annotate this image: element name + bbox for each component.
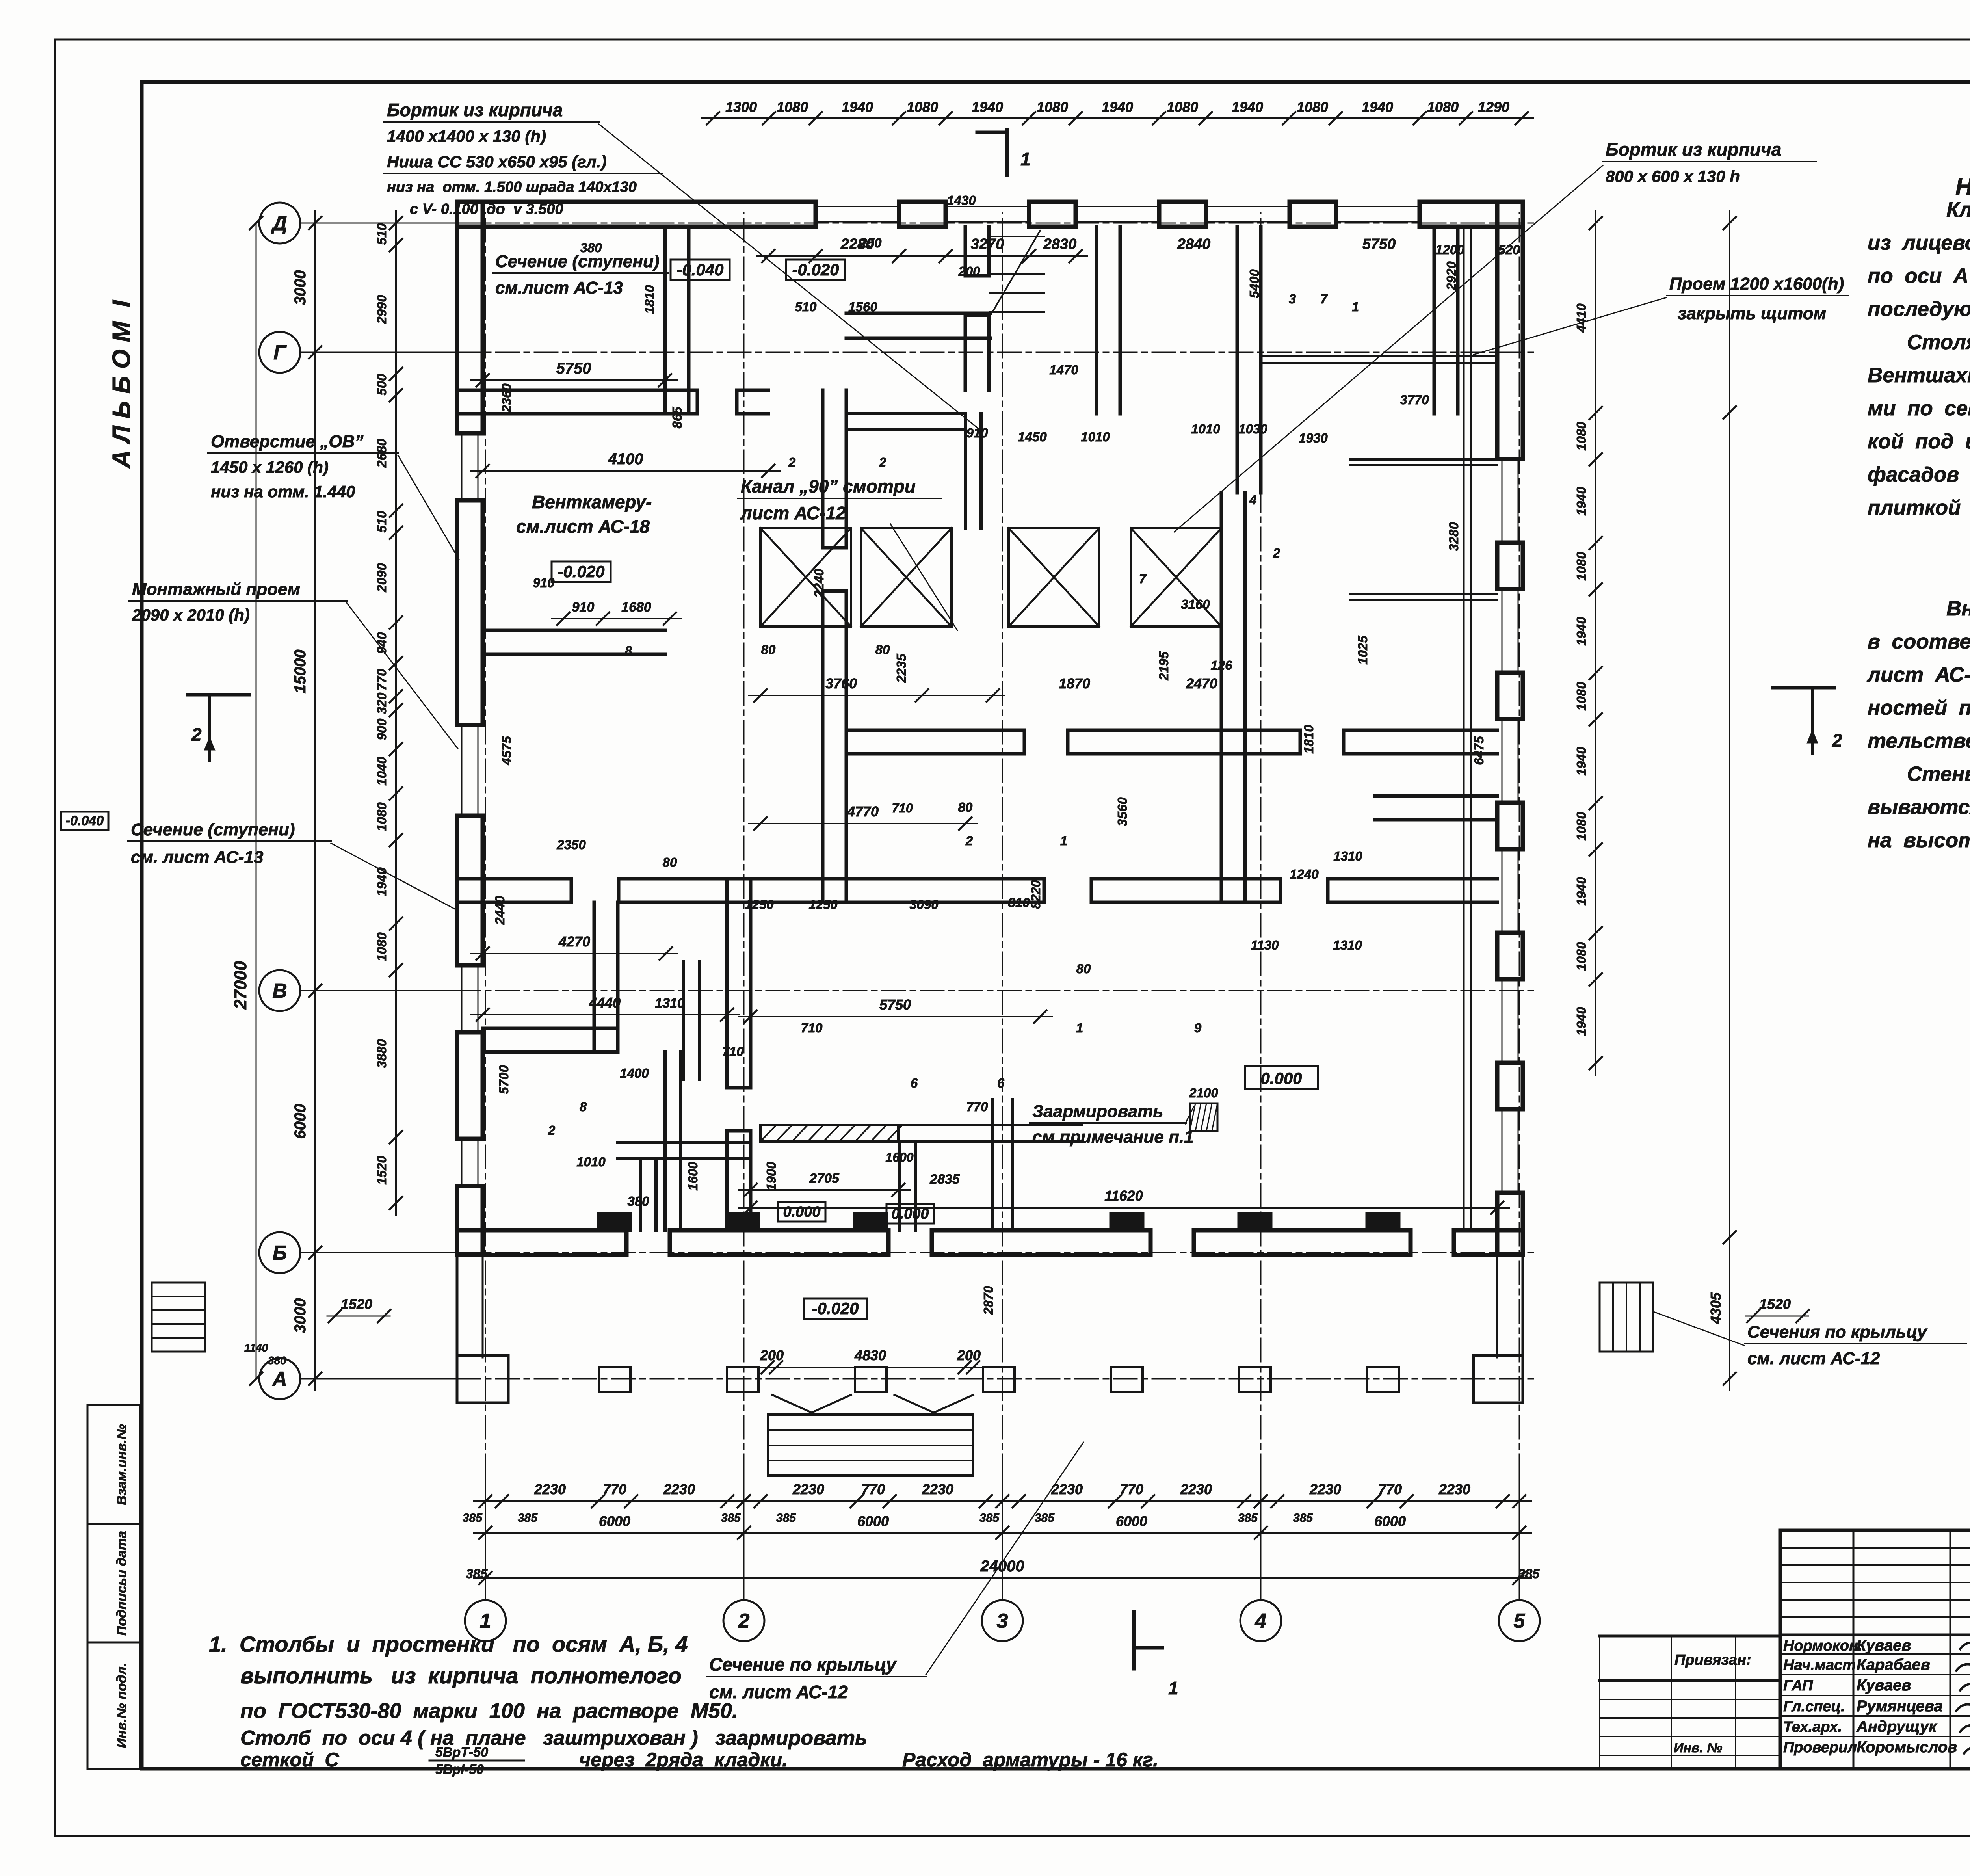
svg-text:Ниша СС 530 х650 х95 (гл.): Ниша СС 530 х650 х95 (гл.) [387, 152, 606, 171]
svg-text:-0.020: -0.020 [558, 562, 604, 581]
svg-text:3560: 3560 [1115, 797, 1130, 826]
svg-text:2: 2 [879, 455, 886, 470]
svg-text:-0.040: -0.040 [66, 813, 104, 828]
svg-text:В: В [272, 980, 287, 1002]
svg-text:4410: 4410 [1574, 303, 1589, 333]
svg-text:2240: 2240 [812, 569, 826, 598]
svg-text:1025: 1025 [1355, 636, 1370, 665]
svg-text:810: 810 [1008, 895, 1030, 910]
svg-text:2230: 2230 [922, 1481, 953, 1497]
svg-text:1080: 1080 [374, 932, 389, 961]
svg-text:Взам.инв.№: Взам.инв.№ [114, 1424, 129, 1505]
svg-text:Сечение (ступени): Сечение (ступени) [131, 820, 295, 839]
svg-text:2840: 2840 [1177, 236, 1211, 253]
svg-text:Стены санузлов, моечной: Стены санузлов, моечной и фасовочной, об… [1907, 762, 1970, 786]
svg-text:2: 2 [1273, 546, 1280, 560]
svg-text:510: 510 [795, 299, 817, 314]
svg-text:Проверил: Проверил [1783, 1739, 1857, 1756]
svg-text:лист АС-12: лист АС-12 [740, 503, 846, 523]
svg-text:3: 3 [1289, 292, 1296, 306]
svg-text:Сечение по крыльцу: Сечение по крыльцу [709, 1654, 897, 1675]
svg-text:-0.020: -0.020 [812, 1299, 859, 1318]
svg-text:2230: 2230 [663, 1481, 695, 1497]
svg-text:385: 385 [1293, 1512, 1313, 1525]
svg-text:2100: 2100 [1189, 1086, 1218, 1100]
svg-text:Привязан:: Привязан: [1674, 1652, 1751, 1668]
svg-text:385: 385 [721, 1512, 741, 1525]
svg-text:-0.020: -0.020 [792, 260, 839, 279]
svg-text:5400: 5400 [1247, 269, 1262, 298]
svg-text:Монтажный проем: Монтажный проем [132, 580, 300, 599]
svg-text:Кладка наружных верст в н: Кладка наружных верст в наружных стенах … [1946, 198, 1970, 221]
svg-text:200: 200 [958, 264, 980, 279]
svg-text:3280: 3280 [1446, 522, 1461, 551]
svg-text:Сечение (ступени): Сечение (ступени) [495, 252, 660, 271]
svg-text:385: 385 [1035, 1512, 1055, 1525]
svg-text:510: 510 [374, 511, 389, 533]
svg-text:710: 710 [722, 1044, 744, 1059]
svg-text:6475: 6475 [1472, 736, 1486, 765]
svg-text:940: 940 [374, 632, 389, 654]
svg-text:1310: 1310 [1333, 938, 1362, 952]
svg-text:27000: 27000 [231, 961, 250, 1010]
svg-text:Заармировать: Заармировать [1032, 1102, 1163, 1121]
svg-text:80: 80 [875, 642, 890, 657]
svg-text:1310: 1310 [655, 996, 685, 1011]
svg-text:8: 8 [580, 1099, 587, 1114]
svg-text:0.000: 0.000 [891, 1206, 929, 1222]
svg-text:380: 380 [627, 1194, 649, 1209]
svg-text:6000: 6000 [857, 1513, 889, 1529]
svg-text:385: 385 [466, 1566, 488, 1581]
svg-text:1. Столбы и простенки по: 1. Столбы и простенки по осям А, Б, 4 [209, 1632, 688, 1657]
svg-text:1940: 1940 [972, 99, 1003, 115]
svg-text:2090: 2090 [374, 563, 389, 593]
svg-text:385: 385 [979, 1512, 1000, 1525]
svg-text:1900: 1900 [764, 1162, 779, 1191]
svg-text:500: 500 [374, 374, 389, 396]
svg-text:7: 7 [1320, 292, 1328, 306]
svg-text:9: 9 [1194, 1021, 1202, 1035]
svg-text:6000: 6000 [1116, 1513, 1147, 1529]
svg-text:1680: 1680 [621, 600, 651, 615]
svg-text:770: 770 [1120, 1481, 1143, 1497]
svg-text:4270: 4270 [558, 933, 590, 950]
svg-text:Тех.арх.: Тех.арх. [1783, 1719, 1842, 1735]
svg-text:385: 385 [776, 1512, 796, 1525]
svg-text:1080: 1080 [1574, 942, 1589, 971]
svg-text:910: 910 [572, 600, 595, 615]
svg-text:2230: 2230 [792, 1481, 824, 1497]
svg-text:2195: 2195 [1156, 651, 1171, 681]
svg-text:1600: 1600 [885, 1150, 913, 1164]
svg-text:2830: 2830 [1043, 236, 1077, 253]
svg-text:0.000: 0.000 [783, 1204, 820, 1220]
svg-text:6: 6 [997, 1076, 1005, 1090]
svg-text:900: 900 [374, 718, 389, 740]
svg-text:Бортик из кирпича: Бортик из кирпича [1606, 139, 1781, 160]
svg-text:1080: 1080 [1037, 99, 1068, 115]
svg-text:1400 х1400 х 130 (h): 1400 х1400 х 130 (h) [387, 127, 546, 145]
svg-text:см примечание п.1: см примечание п.1 [1032, 1127, 1194, 1147]
svg-text:1: 1 [480, 1610, 491, 1632]
svg-text:Проем 1200 х1600(h): Проем 1200 х1600(h) [1669, 274, 1844, 294]
svg-text:1: 1 [1352, 299, 1359, 314]
svg-text:3880: 3880 [374, 1039, 389, 1068]
svg-text:см.лист АС-18: см.лист АС-18 [516, 516, 650, 537]
svg-text:1940: 1940 [1574, 877, 1589, 906]
svg-text:1940: 1940 [1232, 99, 1263, 115]
svg-text:Бортик из кирпича: Бортик из кирпича [387, 100, 563, 120]
svg-text:1080: 1080 [1297, 99, 1328, 115]
svg-text:2: 2 [191, 724, 202, 745]
svg-text:5700: 5700 [496, 1065, 511, 1094]
svg-text:1940: 1940 [842, 99, 873, 115]
svg-text:520: 520 [1498, 242, 1520, 257]
svg-text:1080: 1080 [1167, 99, 1198, 115]
svg-text:по ГОСТ530-80 марки 100 на: по ГОСТ530-80 марки 100 на растворе М50. [240, 1699, 738, 1723]
svg-text:1010: 1010 [1081, 429, 1110, 444]
svg-text:1250: 1250 [745, 897, 774, 912]
svg-text:Куваев: Куваев [1857, 1677, 1911, 1694]
svg-text:15000: 15000 [292, 649, 309, 693]
svg-text:Б: Б [273, 1242, 287, 1264]
svg-text:1520: 1520 [1759, 1296, 1791, 1312]
svg-text:2835: 2835 [929, 1172, 960, 1187]
svg-text:320: 320 [374, 692, 389, 714]
svg-text:3270: 3270 [971, 236, 1004, 253]
svg-text:Столб по оси 4 ( на плане: Столб по оси 4 ( на плане заштрихован ) … [240, 1727, 867, 1750]
svg-text:по оси А ( в осях 2-3): по оси А ( в осях 2-3) отделать улучшенн… [1868, 264, 1970, 288]
svg-text:1010: 1010 [1191, 422, 1220, 436]
svg-text:1200: 1200 [1435, 242, 1464, 257]
svg-text:250: 250 [859, 236, 882, 250]
svg-text:200: 200 [760, 1347, 784, 1363]
svg-text:Д: Д [271, 212, 287, 235]
svg-text:80: 80 [663, 855, 677, 870]
svg-text:Куваев: Куваев [1857, 1637, 1911, 1654]
svg-text:1940: 1940 [1574, 747, 1589, 776]
svg-text:385: 385 [463, 1512, 483, 1525]
svg-text:1130: 1130 [1251, 938, 1279, 952]
svg-text:2: 2 [1832, 730, 1842, 751]
svg-text:низ на отм. 1.440: низ на отм. 1.440 [211, 482, 355, 501]
svg-text:1080: 1080 [1574, 552, 1589, 581]
svg-text:1520: 1520 [374, 1156, 389, 1185]
svg-text:ностей помещений определяе: ностей помещений определяется при привяз… [1868, 696, 1970, 720]
svg-text:4440: 4440 [589, 995, 621, 1011]
svg-text:5: 5 [1514, 1610, 1526, 1632]
svg-text:3760: 3760 [825, 675, 857, 692]
svg-text:1010: 1010 [576, 1155, 606, 1169]
svg-text:8: 8 [625, 643, 632, 658]
svg-text:2360: 2360 [499, 383, 514, 413]
svg-text:1080: 1080 [1427, 99, 1459, 115]
svg-text:Гл.спец.: Гл.спец. [1783, 1698, 1845, 1715]
svg-text:1300: 1300 [725, 99, 757, 115]
svg-text:200: 200 [957, 1347, 981, 1363]
svg-text:вываются глазурованной пли: вываются глазурованной плиткой ( белой б… [1868, 796, 1970, 819]
svg-text:1040: 1040 [374, 757, 389, 786]
svg-text:1940: 1940 [374, 867, 389, 896]
svg-text:тельстве здания.: тельстве здания. [1868, 729, 1970, 753]
svg-text:1520: 1520 [341, 1296, 372, 1312]
svg-text:2870: 2870 [981, 1286, 996, 1315]
svg-text:2: 2 [548, 1123, 556, 1138]
svg-text:3090: 3090 [909, 897, 939, 912]
svg-text:4770: 4770 [847, 803, 879, 820]
svg-text:770: 770 [1378, 1481, 1402, 1497]
svg-text:Нач.маст: Нач.маст [1783, 1657, 1856, 1673]
svg-text:1940: 1940 [1574, 617, 1589, 646]
svg-text:с V- 0.100 до v 3.500: с V- 0.100 до v 3.500 [410, 201, 563, 218]
svg-text:4: 4 [1249, 493, 1256, 507]
svg-text:80: 80 [1076, 961, 1091, 976]
svg-text:лист АС-6 ). Колер покрас: лист АС-6 ). Колер покраски оштукатуренн… [1866, 663, 1970, 686]
svg-text:кой под цвет кирпича ( см: кой под цвет кирпича ( см. паспорт цвето… [1868, 430, 1970, 453]
svg-text:1600: 1600 [686, 1162, 700, 1191]
svg-text:0.000: 0.000 [1260, 1069, 1302, 1088]
svg-text:1080: 1080 [1574, 422, 1589, 451]
svg-text:Внутренние поверхности кирп: Внутренние поверхности кирпичных стен вы… [1946, 597, 1970, 620]
svg-text:3000: 3000 [292, 270, 309, 305]
svg-text:фасадов на листе АС-3).: фасадов на листе АС-3). Цоколь облицовыв… [1868, 463, 1970, 486]
svg-text:1400: 1400 [620, 1066, 649, 1080]
svg-text:4100: 4100 [608, 450, 643, 468]
svg-text:5ВрI-50: 5ВрI-50 [435, 1762, 484, 1777]
svg-text:11620: 11620 [1104, 1188, 1143, 1204]
svg-text:4: 4 [1255, 1610, 1267, 1632]
svg-text:1: 1 [1076, 1021, 1083, 1035]
svg-text:6000: 6000 [599, 1513, 630, 1529]
svg-text:770: 770 [603, 1481, 626, 1497]
svg-text:1560: 1560 [848, 299, 877, 314]
svg-text:1470: 1470 [1049, 363, 1078, 377]
svg-text:1080: 1080 [1574, 682, 1589, 711]
svg-text:1930: 1930 [1299, 431, 1328, 445]
svg-text:из лицевого кирпича с расш: из лицевого кирпича с расшивкой швов. Вы… [1868, 231, 1970, 255]
svg-text:1870: 1870 [1059, 675, 1090, 692]
svg-text:Инв. №: Инв. № [1674, 1740, 1722, 1755]
svg-text:см. лист АС-13: см. лист АС-13 [131, 848, 264, 867]
svg-text:385: 385 [518, 1512, 538, 1525]
svg-text:385: 385 [1238, 1512, 1258, 1525]
svg-text:см. лист АС-12: см. лист АС-12 [1747, 1349, 1880, 1368]
svg-text:Румянцева: Румянцева [1857, 1698, 1943, 1715]
svg-text:1450 х 1260 (h): 1450 х 1260 (h) [211, 458, 329, 476]
svg-text:1810: 1810 [1301, 725, 1316, 754]
svg-text:Канал „90” смотри: Канал „90” смотри [741, 476, 916, 496]
svg-text:1080: 1080 [907, 99, 938, 115]
svg-text:1940: 1940 [1362, 99, 1393, 115]
svg-text:Венткамеру-: Венткамеру- [532, 492, 652, 512]
svg-text:1250: 1250 [808, 897, 838, 912]
svg-text:Подписьи дата: Подписьи дата [114, 1531, 129, 1636]
svg-text:2230: 2230 [1438, 1481, 1470, 1497]
svg-text:на высоту 1, 8 м.: на высоту 1, 8 м. [1868, 829, 1970, 852]
svg-text:2090 х 2010 (h): 2090 х 2010 (h) [132, 606, 250, 624]
svg-text:1080: 1080 [1574, 812, 1589, 841]
svg-text:1940: 1940 [1574, 1007, 1589, 1036]
svg-text:2470: 2470 [1186, 675, 1217, 692]
svg-text:80: 80 [958, 800, 973, 814]
svg-text:Андрущук: Андрущук [1856, 1718, 1937, 1735]
svg-text:1940: 1940 [1102, 99, 1133, 115]
svg-text:126: 126 [1210, 658, 1232, 673]
svg-text:А Л Ь Б О М I: А Л Ь Б О М I [107, 300, 136, 469]
svg-text:5750: 5750 [556, 360, 591, 377]
svg-text:4305: 4305 [1708, 1292, 1724, 1324]
svg-text:4830: 4830 [854, 1347, 886, 1363]
svg-text:6000: 6000 [292, 1104, 309, 1139]
svg-text:Вентшахты выходящие на кров: Вентшахты выходящие на кровлю выполняютс… [1868, 364, 1970, 387]
svg-text:2920: 2920 [1444, 261, 1459, 291]
svg-text:7: 7 [1139, 571, 1147, 586]
svg-text:2: 2 [788, 455, 796, 470]
svg-text:865: 865 [670, 407, 684, 429]
svg-text:2230: 2230 [534, 1481, 566, 1497]
svg-text:80: 80 [761, 642, 776, 657]
svg-text:1: 1 [1168, 1678, 1178, 1698]
svg-text:Г: Г [273, 341, 287, 364]
svg-text:2705: 2705 [809, 1171, 840, 1186]
svg-text:последующей окраской кремне: последующей окраской кремнеорганической … [1868, 297, 1970, 321]
svg-text:6000: 6000 [1374, 1513, 1406, 1529]
svg-text:Сечения по крыльцу: Сечения по крыльцу [1747, 1322, 1928, 1342]
svg-text:Расход арматуры - 16 кг.: Расход арматуры - 16 кг. [902, 1749, 1158, 1771]
svg-text:2230: 2230 [1309, 1481, 1341, 1497]
svg-text:в соответствии с ведомостью: в соответствии с ведомостью отделки поме… [1868, 630, 1970, 653]
svg-text:Инв.№ подл.: Инв.№ подл. [114, 1663, 129, 1748]
svg-text:3770: 3770 [1400, 392, 1429, 407]
svg-text:1810: 1810 [642, 285, 657, 314]
svg-text:плиткой „ Кабанчик.”: плиткой „ Кабанчик.” [1868, 496, 1970, 519]
svg-text:Столярные изделия снаружи: Столярные изделия снаружи окрашиваются м… [1907, 331, 1970, 354]
svg-text:5750: 5750 [1362, 236, 1396, 253]
svg-text:2230: 2230 [1180, 1481, 1212, 1497]
svg-text:1080: 1080 [777, 99, 808, 115]
svg-text:Карабаев: Карабаев [1857, 1656, 1930, 1673]
svg-text:1: 1 [1060, 833, 1067, 848]
svg-text:380: 380 [268, 1354, 286, 1367]
svg-text:510: 510 [374, 223, 389, 245]
svg-text:770: 770 [374, 669, 389, 691]
svg-text:Нормокон.: Нормокон. [1783, 1638, 1862, 1654]
svg-text:сеткой С: сеткой С [240, 1749, 339, 1771]
svg-text:5750: 5750 [879, 997, 911, 1013]
svg-text:1430: 1430 [947, 193, 976, 208]
svg-text:2990: 2990 [374, 295, 389, 324]
svg-text:800 х 600 х 130 h: 800 х 600 х 130 h [1606, 167, 1740, 186]
svg-text:Наружная отделка: Наружная отделка [1955, 173, 1970, 200]
svg-text:через 2ряда кладки.: через 2ряда кладки. [579, 1749, 788, 1771]
svg-text:385: 385 [1518, 1566, 1540, 1581]
svg-text:2: 2 [738, 1610, 750, 1632]
svg-text:см.лист АС-13: см.лист АС-13 [495, 278, 623, 297]
svg-text:-0.040: -0.040 [676, 260, 723, 279]
svg-text:1940: 1940 [1574, 487, 1589, 516]
svg-text:2440: 2440 [492, 896, 507, 925]
svg-text:8220: 8220 [1028, 880, 1043, 909]
svg-text:4575: 4575 [499, 736, 514, 766]
svg-text:ГАП: ГАП [1783, 1677, 1813, 1694]
svg-text:выполнить из кирпича полно: выполнить из кирпича полнотелого [240, 1663, 682, 1688]
svg-text:ми по сетке с последующей: ми по сетке с последующей покраской водо… [1868, 397, 1970, 420]
svg-text:закрыть щитом: закрыть щитом [1678, 304, 1826, 323]
svg-text:2: 2 [965, 833, 973, 848]
svg-text:710: 710 [801, 1021, 823, 1035]
svg-text:Коромыслов: Коромыслов [1857, 1738, 1957, 1756]
svg-text:2235: 2235 [894, 654, 909, 683]
svg-text:1030: 1030 [1238, 422, 1267, 436]
svg-text:3160: 3160 [1181, 597, 1210, 612]
svg-text:3000: 3000 [292, 1298, 309, 1333]
svg-text:770: 770 [966, 1099, 988, 1114]
svg-text:5ВрТ-50: 5ВрТ-50 [435, 1745, 488, 1760]
svg-text:770: 770 [861, 1481, 885, 1497]
svg-text:Отверстие „ОВ”: Отверстие „ОВ” [211, 432, 363, 451]
svg-text:1450: 1450 [1018, 429, 1047, 444]
svg-text:1240: 1240 [1290, 867, 1319, 881]
svg-text:2350: 2350 [556, 837, 586, 852]
svg-text:1: 1 [1020, 149, 1031, 169]
svg-text:1310: 1310 [1333, 849, 1362, 863]
svg-text:3: 3 [997, 1610, 1008, 1632]
svg-text:1290: 1290 [1478, 99, 1509, 115]
svg-text:710: 710 [892, 801, 913, 815]
svg-text:24000: 24000 [980, 1558, 1024, 1575]
svg-text:низ на отм. 1.500 шрада 140х1: низ на отм. 1.500 шрада 140х130 [387, 179, 637, 195]
svg-text:А: А [271, 1368, 287, 1391]
svg-text:1080: 1080 [374, 802, 389, 831]
svg-text:6: 6 [911, 1076, 918, 1090]
